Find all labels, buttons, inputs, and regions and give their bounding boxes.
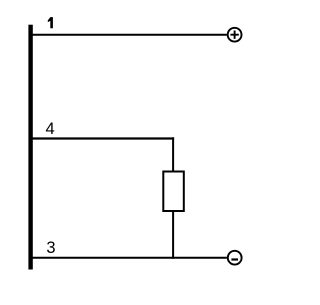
svg-text:4: 4	[46, 120, 55, 138]
svg-text:3: 3	[46, 239, 55, 257]
wire from resistor R1 down to wire 3	[172, 211, 174, 259]
wire terminal 1 to +	[32, 34, 227, 36]
wire terminal 3 to -	[32, 257, 227, 259]
resistor R1 body	[163, 172, 184, 212]
wire from node 4 down to resistor R1	[172, 137, 174, 171]
plus sign	[230, 31, 238, 39]
bus bar (vertical supply rail)	[28, 25, 32, 270]
wire terminal 4 horizontal	[32, 137, 174, 139]
minus sign	[231, 258, 238, 260]
pin label 1	[48, 17, 53, 28]
terminal - (negative) circle	[228, 251, 242, 265]
terminal + (positive) circle	[228, 28, 242, 42]
